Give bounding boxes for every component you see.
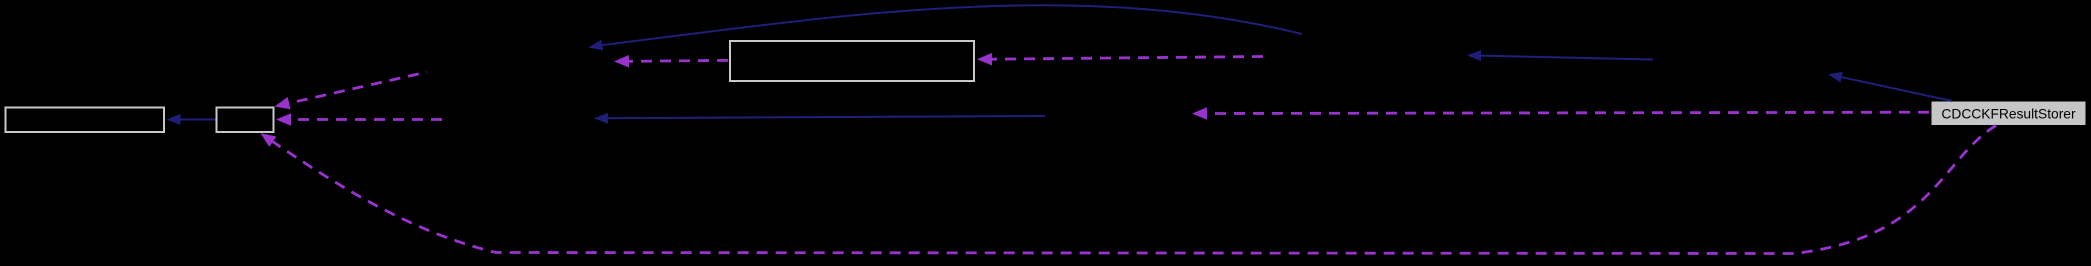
- svg-text:CDCCKFResultStorer: CDCCKFResultStorer: [1941, 107, 2076, 122]
